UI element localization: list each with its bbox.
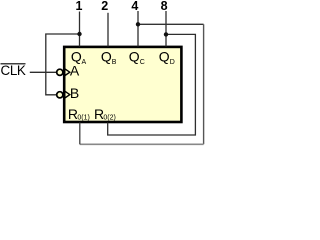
wire QA output pin — [79, 12, 81, 47]
node junction on QA wire — [77, 32, 81, 36]
inversion bubble B clock input — [57, 92, 63, 98]
IC body U1 (4-bit ripple counter) — [64, 47, 181, 122]
wire R0(1) pin drop — [79, 123, 81, 145]
node junction on QC wire — [136, 22, 140, 26]
svg-text:C: C — [140, 59, 145, 66]
svg-text:A: A — [70, 62, 80, 78]
svg-text:8: 8 — [161, 0, 168, 13]
wire QD to R0(2) inner loop — [108, 34, 196, 135]
svg-text:0(1): 0(1) — [77, 115, 89, 122]
wire QC output pin — [137, 11, 139, 47]
svg-text:D: D — [170, 59, 175, 66]
svg-text:0(2): 0(2) — [103, 115, 115, 122]
clock wedge B — [65, 91, 70, 98]
inversion bubble A clock input — [57, 69, 63, 75]
svg-text:2: 2 — [101, 0, 108, 13]
svg-text:4: 4 — [131, 0, 138, 13]
svg-text:Q: Q — [101, 48, 112, 64]
svg-text:Q: Q — [129, 48, 140, 64]
svg-text:Q: Q — [159, 48, 170, 64]
svg-text:B: B — [112, 59, 117, 66]
wire QC to R0(1) outer loop, top segment — [138, 23, 204, 25]
svg-text:B: B — [70, 85, 79, 101]
clock wedge A — [65, 69, 70, 76]
wire QD output pin — [165, 11, 167, 47]
node junction on QD wire — [164, 32, 168, 36]
svg-text:CLK: CLK — [1, 63, 26, 78]
wire QC to R0(1) outer loop, right segment — [203, 24, 205, 144]
wire QB output pin — [107, 13, 109, 47]
wire CLK input — [30, 71, 57, 73]
svg-text:1: 1 — [76, 0, 83, 13]
wire QC to R0(1) outer loop, bottom segment — [80, 143, 204, 145]
wire feedback QA to B input — [46, 34, 80, 95]
svg-text:A: A — [82, 59, 87, 66]
